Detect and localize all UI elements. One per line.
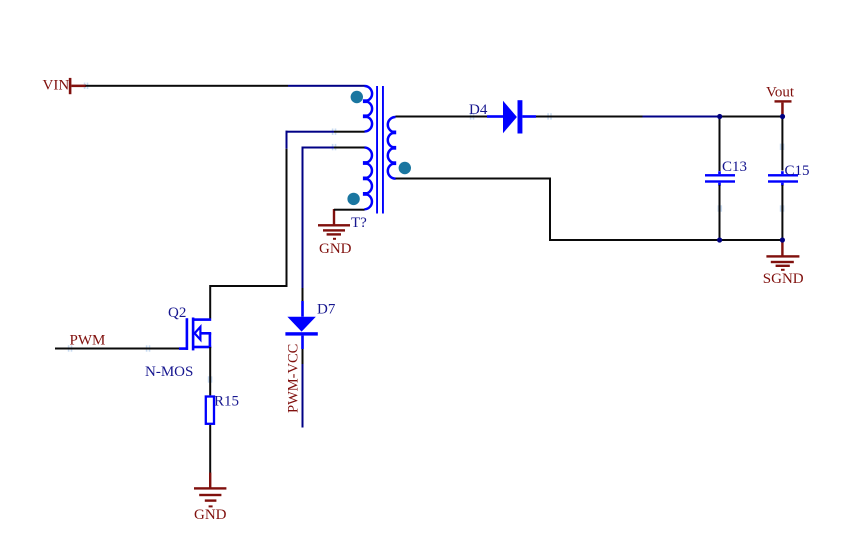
wire C13 bottom branch [719,185,721,240]
transformer T? primary winding 1 [365,86,373,132]
ground GND at R15 [194,473,226,508]
grid mark on C15 top branch [780,144,785,150]
diode D7 cathode bar [285,332,317,335]
polarity dot primary 2 [347,193,359,205]
transformer T? primary winding 2 [365,148,372,210]
transformer T? secondary winding [388,117,396,179]
wire PWM-VCC vertical navy upper [302,147,304,289]
wire bottom rail [549,239,783,241]
svg-text:SGND: SGND [763,271,804,287]
svg-text:T?: T? [351,215,367,231]
svg-text:C15: C15 [785,163,810,179]
svg-text:N-MOS: N-MOS [145,364,193,380]
diode D4 [503,101,517,133]
wire primary1 bottom pin navy [286,131,335,133]
grid mark on secondary bottom wire [547,113,552,119]
capacitor C13 bottom pin [718,183,721,186]
wire secondary bottom pin black [396,178,552,180]
grid mark on PWM wire left [68,345,72,351]
diode D4 cathode bar [518,100,523,133]
wire R15 to ground [209,425,211,473]
capacitor C13 top pin [718,171,721,174]
svg-text:Q2: Q2 [168,305,186,321]
wire node to primary top pin (navy) [288,85,365,87]
transistor Q2 N-MOS [179,318,211,351]
wire C13 top branch [719,117,721,172]
transformer core line 1 [376,86,378,214]
wire VIN to node (black) [86,85,289,87]
grid mark on C15 branch [780,205,785,211]
diode D7 anode pin [301,301,304,317]
wire drain horizontal [209,285,287,287]
grid mark on primary bottom wire [332,129,337,135]
svg-text:PWM: PWM [70,332,106,348]
wire C13 node to Vout node black [720,116,783,118]
wire C15 bottom branch [781,185,783,240]
polarity dot secondary [399,162,411,174]
wire source to R15 [209,347,211,395]
wire vertical secondary return [549,178,551,241]
power port VIN [43,77,87,94]
wire primary2 top pin black [334,147,365,149]
wire PWM-VCC vertical black upper [302,288,304,301]
wire D4 to node black [536,116,643,118]
wire vertical to drain black [286,149,288,287]
power port Vout [766,84,795,116]
wire primary1 bottom pin black [334,131,365,133]
grid mark on C13 branch [718,205,723,211]
junction dot top Vout [780,114,785,119]
diode D4 anode pin [487,115,503,118]
grid mark on PWM wire right [146,345,151,351]
transformer T? winding cusps [363,99,396,196]
wire primary2 bottom pin black [334,209,365,211]
grid mark on source wire [208,376,213,382]
ground SGND [766,240,799,271]
transistor Q2 arrow [195,327,201,340]
grid mark at VIN wire end [84,83,88,89]
svg-text:PWM-VCC: PWM-VCC [286,344,302,413]
wire vertical to drain navy [286,131,288,149]
junction dot top C13 [717,114,722,119]
resistor R15 [206,397,214,424]
diode D7 [287,317,315,332]
polarity dot primary 1 [351,91,363,103]
wire secondary top pin black [396,116,488,118]
junction dot bottom SGND [780,237,785,242]
wire PWM-VCC vertical navy lower [302,364,304,428]
wire navy to C13 node [643,116,720,118]
capacitor C13 [705,174,735,176]
capacitor C15 top pin [781,171,784,174]
capacitor C15 [768,174,798,176]
svg-text:D7: D7 [317,302,336,318]
capacitor C15 bottom pin [781,183,784,186]
wire primary2 top pin navy [302,147,335,149]
svg-text:R15: R15 [214,394,239,410]
diode D7 cathode pin [301,336,304,349]
svg-text:C13: C13 [722,159,747,175]
grid mark on D4 anode wire [470,113,475,119]
wire PWM to gate [55,348,180,350]
diode D4 cathode pin [522,115,536,118]
wire PWM-VCC vertical black lower [302,349,304,364]
ground GND at transformer [318,209,350,240]
svg-text:D4: D4 [469,102,488,118]
svg-text:GND: GND [194,507,227,523]
grid mark on second primary wire [332,144,337,150]
junction dot bottom C13 [717,237,722,242]
wire drain vertical [209,287,211,319]
svg-text:Vout: Vout [766,84,795,100]
transformer core line 2 [382,86,384,214]
svg-text:GND: GND [319,241,352,257]
wire C15 top branch [781,117,783,171]
svg-text:VIN: VIN [43,77,70,93]
